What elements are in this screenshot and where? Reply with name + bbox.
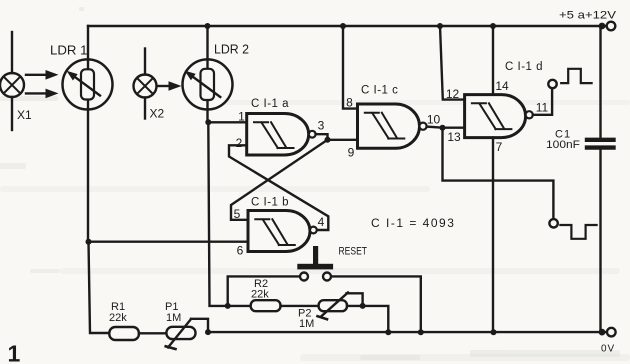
light arrow X1 lower bbox=[26, 89, 59, 99]
svg-text:7: 7 bbox=[496, 140, 503, 154]
wire R2 to P2 bbox=[281, 305, 319, 307]
svg-text:C I-1 d: C I-1 d bbox=[505, 61, 543, 73]
wire CI-1a output to pin9 row bbox=[316, 134, 358, 140]
svg-text:X1: X1 bbox=[17, 108, 32, 122]
svg-text:22k: 22k bbox=[109, 312, 127, 324]
svg-text:8: 8 bbox=[346, 96, 353, 110]
op... NAND gate CI-1a bbox=[247, 114, 316, 156]
potentiometer P1 bbox=[166, 319, 208, 349]
wire pin12 from +V rail bbox=[440, 26, 465, 100]
capacitor C1 bbox=[587, 140, 614, 148]
node bottom rail / right rail junction bbox=[599, 329, 606, 336]
terminal +V bbox=[607, 22, 616, 31]
node bottom rail / pin7 junction bbox=[491, 329, 497, 335]
wire CI-1c output to pin13 bbox=[427, 127, 465, 128]
svg-text:C I-1 = 4093: C I-1 = 4093 bbox=[371, 216, 455, 230]
node LDR2 bottom / pin1 junction bbox=[205, 119, 211, 125]
pushbutton RESET bbox=[297, 246, 333, 281]
wire Q-bar node to lower terminal bbox=[443, 128, 554, 219]
svg-text:0V: 0V bbox=[601, 344, 615, 355]
svg-text:C I-1 c: C I-1 c bbox=[361, 85, 398, 97]
wire pin7 to 0V rail bbox=[492, 138, 494, 333]
wire cross coupling to pin5 bbox=[231, 140, 328, 220]
wire pin6 from LDR1 node bbox=[89, 240, 249, 242]
waveform negative pulse bbox=[560, 225, 596, 239]
svg-text:1: 1 bbox=[8, 341, 21, 364]
svg-text:+5 a+12V: +5 a+12V bbox=[559, 10, 617, 22]
terminal output Q bbox=[548, 80, 556, 88]
node top rail / LDR2 junction bbox=[205, 23, 211, 29]
light arrow X1 upper bbox=[26, 70, 59, 80]
svg-text:X2: X2 bbox=[150, 107, 165, 121]
wire right rail upper bbox=[599, 26, 601, 138]
svg-text:5: 5 bbox=[234, 207, 241, 221]
svg-text:3: 3 bbox=[318, 119, 325, 133]
svg-text:22k: 22k bbox=[251, 289, 269, 301]
NAND gate CI-1d bbox=[465, 95, 533, 138]
node output 10 junction bbox=[440, 125, 446, 131]
svg-text:14: 14 bbox=[495, 79, 509, 93]
wire left branch vertical through LDR1 bbox=[87, 26, 89, 242]
wire R1 to P1 bbox=[139, 332, 167, 334]
svg-text:100nF: 100nF bbox=[546, 139, 580, 151]
node top rail / right rail junction bbox=[599, 23, 606, 30]
wire P2 to 0V rail bbox=[347, 306, 388, 332]
NAND gate CI-1c bbox=[358, 104, 427, 148]
wire reset right to 0V rail bbox=[331, 276, 421, 332]
terminal 0V bbox=[607, 328, 616, 337]
wire LDR2 node down to R2 row bbox=[208, 122, 250, 306]
wire pin11 to output terminal bbox=[533, 88, 552, 115]
svg-text:C I-1 b: C I-1 b bbox=[251, 197, 289, 209]
wire top supply rail bbox=[88, 25, 606, 27]
wire pin2 from CI-1b output (cross coupling) bbox=[229, 145, 328, 230]
potentiometer P2 bbox=[318, 293, 363, 320]
wire right rail lower bbox=[599, 150, 601, 332]
node LDR1 / pin6 junction bbox=[86, 239, 92, 245]
node top rail / pin8 junction bbox=[340, 23, 346, 29]
svg-text:RESET: RESET bbox=[339, 246, 368, 258]
svg-text:LDR 1: LDR 1 bbox=[50, 43, 88, 58]
resistor R2 bbox=[251, 300, 281, 311]
resistor R1 bbox=[109, 327, 139, 340]
wire bottom 0V rail bbox=[208, 331, 606, 333]
svg-text:C I-1 a: C I-1 a bbox=[251, 98, 289, 110]
node R2 row / reset junction bbox=[225, 303, 231, 309]
node P2 wiper junction bbox=[360, 303, 366, 309]
svg-text:LDR 2: LDR 2 bbox=[214, 42, 249, 57]
node P1 wiper / 0V junction bbox=[205, 329, 211, 335]
wire reset left to R2 row bbox=[228, 276, 300, 306]
terminal output Q-bar bbox=[549, 219, 557, 227]
LDR1 bbox=[63, 59, 113, 109]
svg-text:4: 4 bbox=[318, 215, 325, 229]
svg-text:13: 13 bbox=[447, 130, 461, 144]
svg-text:1M: 1M bbox=[299, 318, 314, 330]
LDR2 bbox=[183, 26, 233, 122]
wire pin1 bbox=[208, 121, 246, 123]
node top rail / pin14 junction bbox=[490, 23, 496, 29]
wire pin14 from +V rail bbox=[492, 26, 494, 95]
svg-text:1: 1 bbox=[238, 110, 245, 124]
svg-text:12: 12 bbox=[446, 87, 460, 101]
node bottom rail / R2P2 branch bbox=[385, 329, 391, 335]
svg-text:9: 9 bbox=[348, 146, 355, 160]
svg-text:11: 11 bbox=[536, 101, 549, 115]
node bottom rail / reset branch bbox=[418, 329, 424, 335]
lamp X1 bbox=[0, 32, 24, 130]
svg-text:1M: 1M bbox=[166, 312, 181, 324]
NAND gate CI-1b bbox=[248, 211, 317, 252]
node output 3 junction bbox=[325, 137, 331, 143]
node top rail / pin12 junction bbox=[437, 23, 443, 29]
light arrow X2 bbox=[158, 81, 182, 90]
svg-text:10: 10 bbox=[427, 113, 441, 127]
lamp X2 bbox=[134, 49, 157, 119]
svg-text:6: 6 bbox=[237, 244, 244, 258]
wire pin8 from +V rail bbox=[343, 26, 358, 109]
svg-text:2: 2 bbox=[236, 136, 243, 150]
waveform positive pulse bbox=[561, 69, 591, 83]
